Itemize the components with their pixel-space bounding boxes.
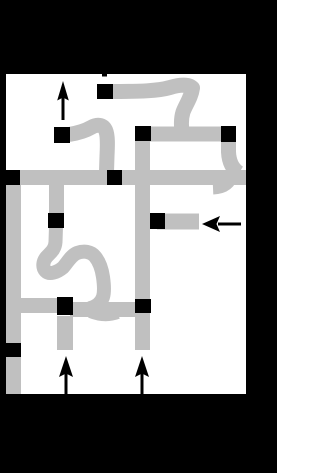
wire row4 from left column to node N10 [5,298,57,313]
wire row1 top path from node N1 going right then down [112,85,193,136]
node N8 [135,299,151,313]
wire V3 tail hook below row3 [213,174,232,188]
arrow A2 left arrow at right middle [202,216,220,232]
wire V3 vertical from node N4 down to row3 [229,136,240,173]
node N9 [48,213,64,228]
arrow A4 up arrow bottom right [135,356,149,377]
wire V1 from row3 down to node N9 [49,180,64,215]
node N4 [221,126,236,142]
wire row2 segment between node N3 and node N4 [140,127,230,142]
bottom black band [0,394,277,473]
node N2 [54,127,70,143]
wire bar between node N10 and node N8 [70,302,137,317]
node N5 [107,170,122,185]
node N3 [135,126,151,141]
wire Vleft long left column from row3 to bottom band [5,180,21,395]
wire hook from node N2 over to node N5 [69,125,107,172]
arrow A1 up arrow top left [57,81,69,101]
wire V1b below node N10 [57,316,73,350]
left black strip [0,74,6,394]
node N7 [150,213,165,229]
top black band [0,0,277,74]
nub below top band [102,74,107,77]
wire row3 horizontal from left edge to right strip [0,170,247,185]
node N1 [97,84,113,99]
wire S-curve from node N9 down to bottom bar [43,226,104,309]
wire stub right of node N7 [157,214,199,230]
arrow A3 up arrow bottom left [59,356,73,377]
node N6 [0,170,20,185]
node N10 [57,297,73,315]
wire V2 long vertical from node N3 down to y350 [135,136,150,350]
wire ragged dip below bar [90,313,118,316]
right black strip [246,74,277,394]
node N11 [0,343,21,357]
